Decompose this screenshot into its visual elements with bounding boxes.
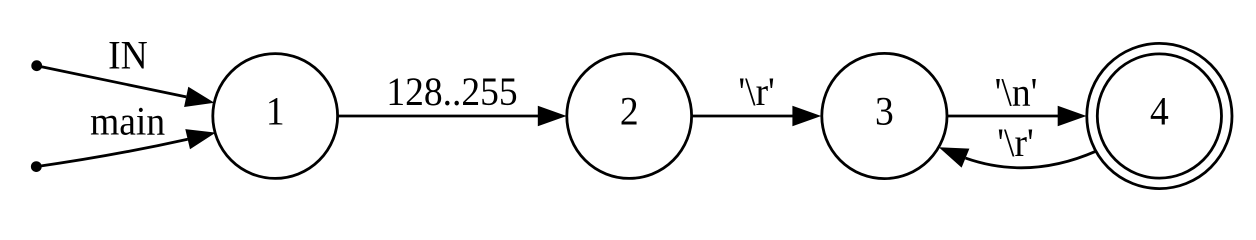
arrowhead 1->2 <box>538 106 567 127</box>
arrowhead 3->4 <box>1058 106 1087 127</box>
wire IN <box>37 66 187 97</box>
svg-text:main: main <box>90 101 165 144</box>
state 3 <box>822 53 947 178</box>
arrowhead 4->3 <box>939 147 970 167</box>
wire 4->3 <box>966 151 1097 168</box>
arrowhead main->1 <box>185 129 215 149</box>
start dot main <box>31 161 42 172</box>
wire main <box>36 139 187 166</box>
wire 3->4 <box>947 115 1058 118</box>
svg-text:'\r': '\r' <box>997 122 1033 165</box>
svg-text:IN: IN <box>108 35 148 78</box>
state 2 <box>567 54 692 179</box>
svg-text:4: 4 <box>1150 90 1169 133</box>
state 1 <box>213 54 338 179</box>
svg-text:1: 1 <box>266 90 285 133</box>
svg-text:2: 2 <box>620 90 639 133</box>
svg-text:'\r': '\r' <box>738 71 774 114</box>
svg-text:128..255: 128..255 <box>386 71 517 114</box>
arrowhead 2->3 <box>792 106 821 127</box>
state 4 (accepting) <box>1097 54 1221 178</box>
start dot IN <box>31 60 42 71</box>
wire 2->3 <box>692 115 793 118</box>
svg-text:'\n': '\n' <box>995 71 1038 114</box>
svg-text:3: 3 <box>875 90 894 133</box>
wire 1->2 <box>338 115 539 118</box>
arrowhead IN->1 <box>184 87 214 107</box>
